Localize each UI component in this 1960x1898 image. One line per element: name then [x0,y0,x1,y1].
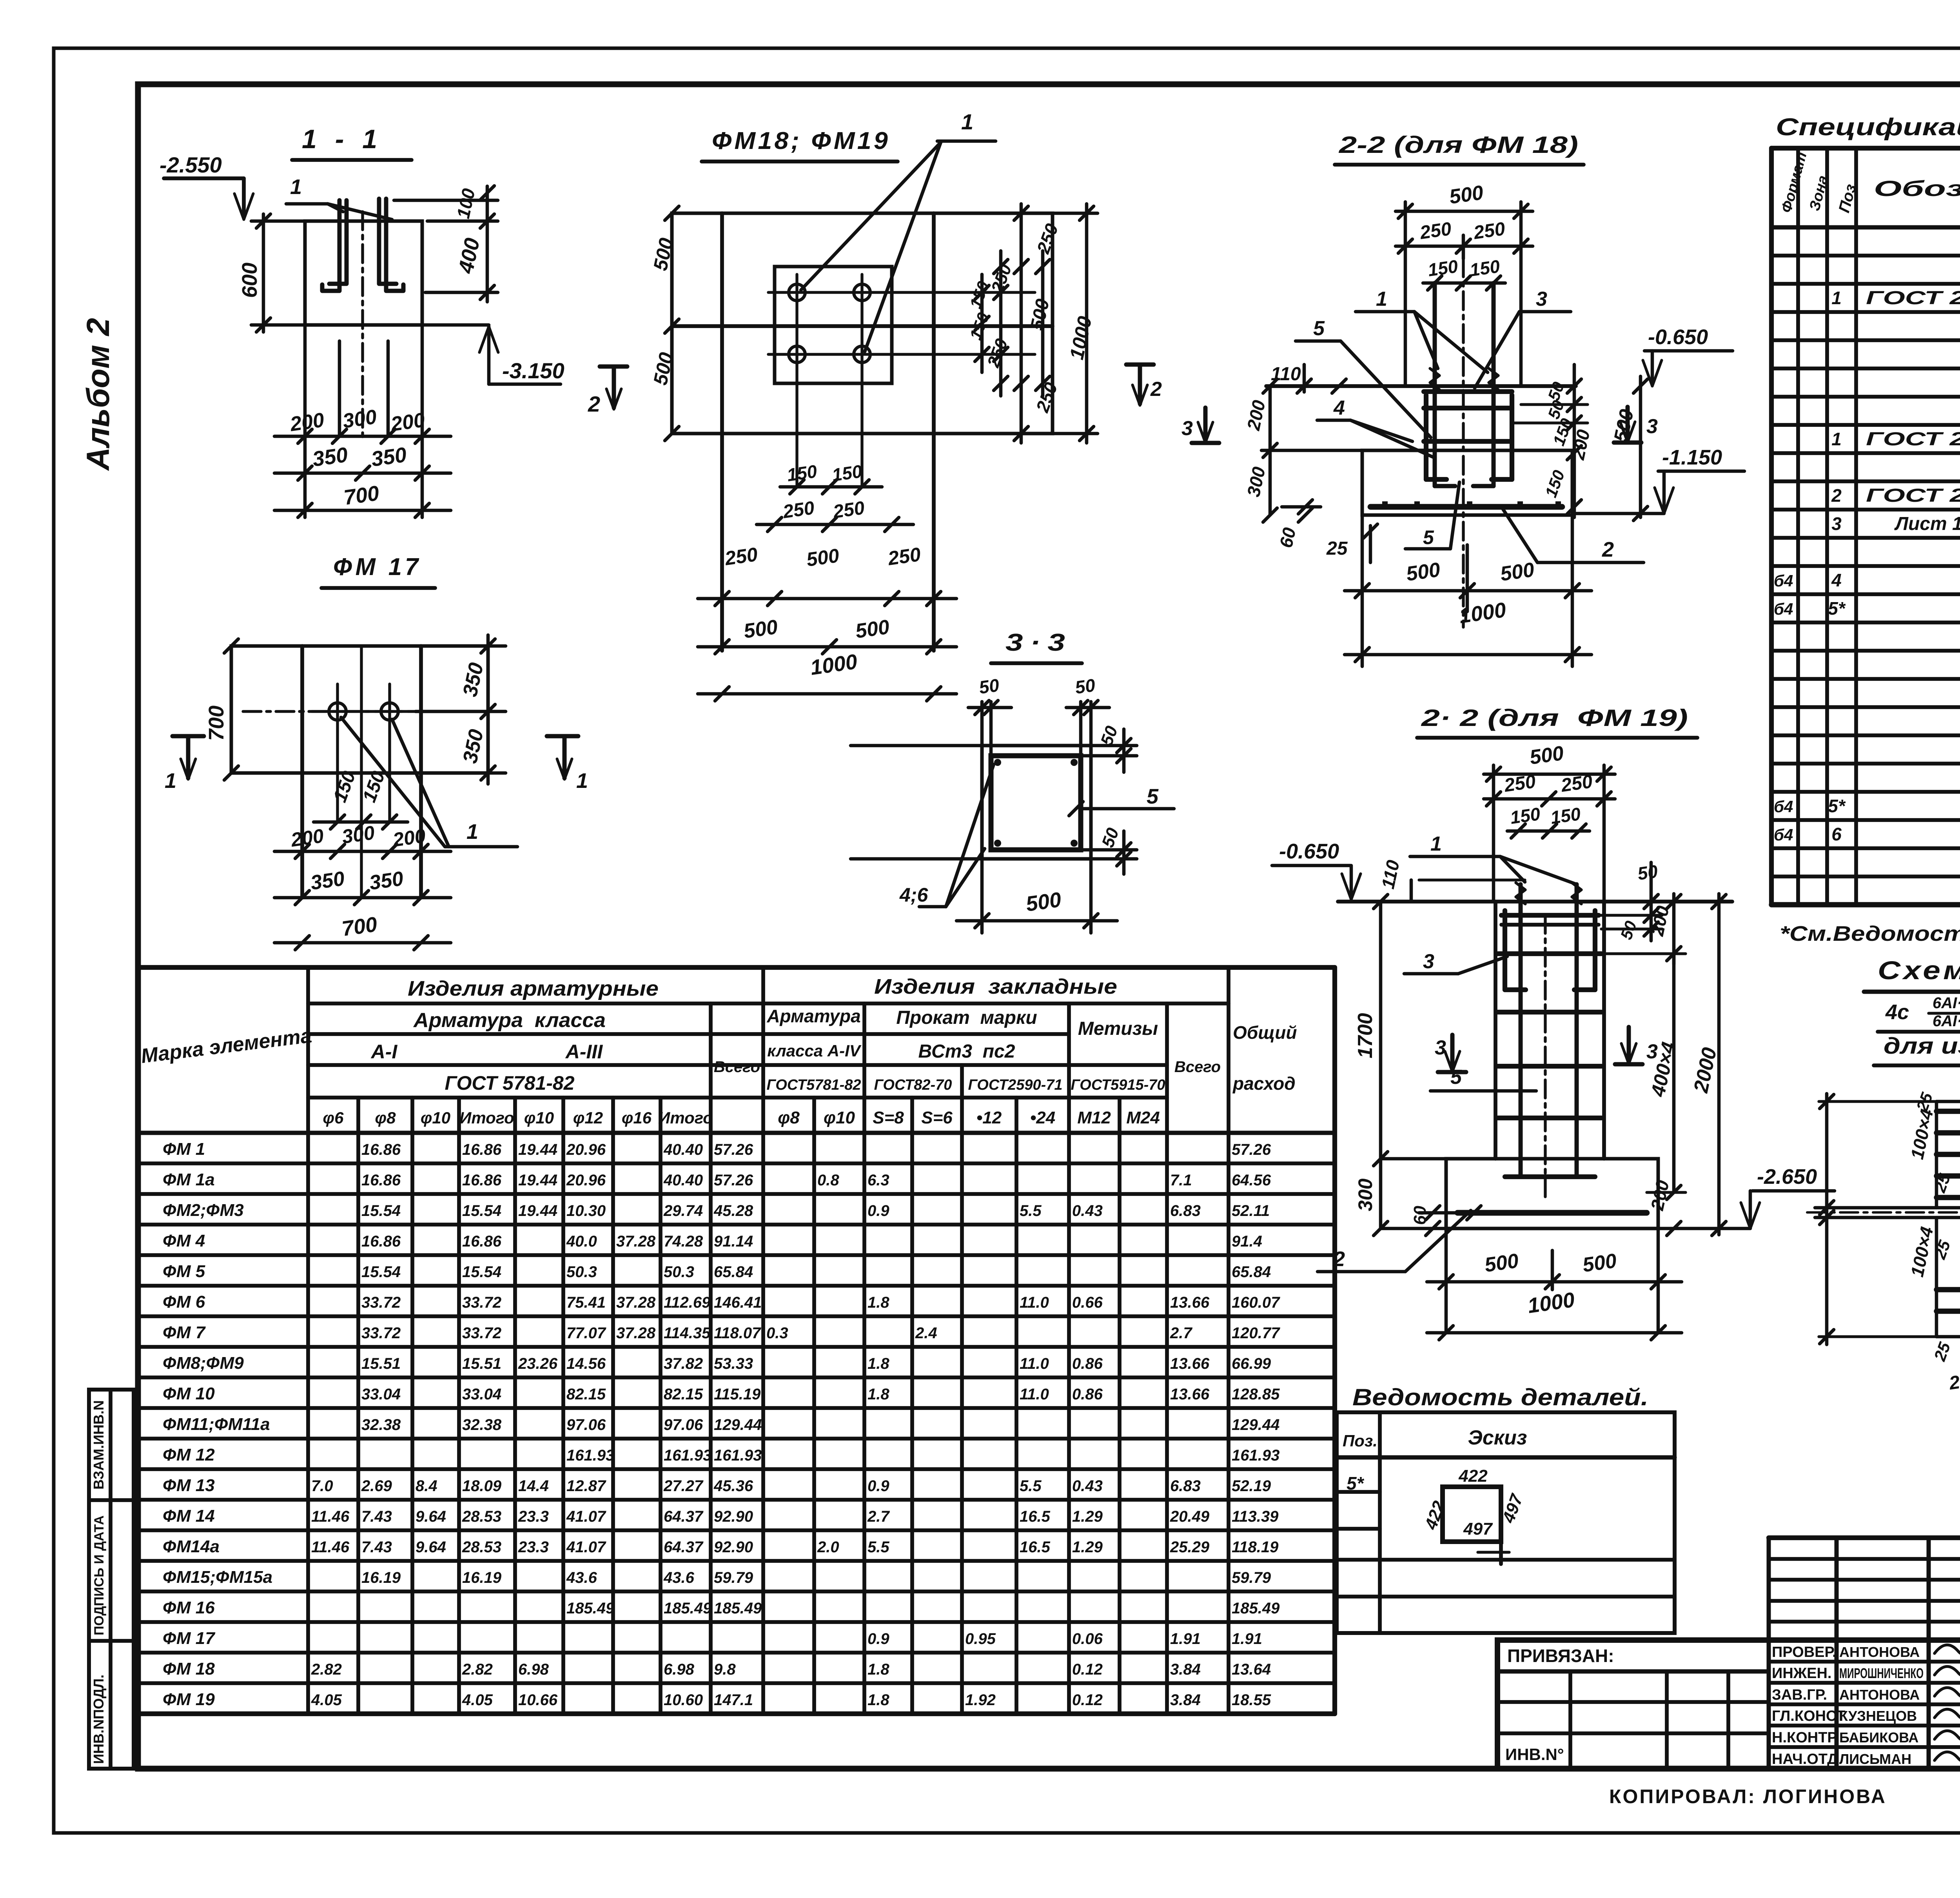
svg-text:-1.150: -1.150 [1662,446,1722,469]
FM17 dim chain 200 300 200 [274,850,451,853]
svg-text:-3.150: -3.150 [502,358,564,383]
svg-text:1700: 1700 [1354,1013,1377,1058]
svg-text:500: 500 [805,544,841,571]
svg-text:23.26: 23.26 [518,1355,558,1372]
svg-text:S=6: S=6 [921,1108,953,1127]
svg-text:33.04: 33.04 [462,1386,501,1403]
svg-text:ПРОВЕР.: ПРОВЕР. [1772,1644,1837,1660]
svg-text:ФМ 5: ФМ 5 [163,1262,205,1281]
svg-text:М12: М12 [1077,1108,1111,1127]
extension lines below [303,325,307,517]
svg-text:16.5: 16.5 [1020,1508,1051,1525]
svg-text:500: 500 [1024,888,1063,916]
svg-text:0.12: 0.12 [1072,1661,1103,1678]
level mark -3.150 [422,323,489,327]
svg-text:ВЗАМ.ИНВ.N: ВЗАМ.ИНВ.N [91,1400,107,1490]
svg-text:1: 1 [576,769,588,793]
ground line -0.650 level [1266,384,1576,388]
svg-text:3: 3 [1536,288,1547,310]
svg-text:1.91: 1.91 [1170,1630,1201,1648]
svg-text:250: 250 [1418,218,1453,243]
svg-text:для изготовления сетки с1.: для изготовления сетки с1. [1884,1033,1960,1059]
svg-text:45.36: 45.36 [713,1477,753,1495]
svg-text:3: 3 [1423,950,1434,973]
svg-text:Спецификация монолитной конст: Спецификация монолитной конструкции. [1776,114,1960,141]
svg-text:ГОСТ 24379.1-80: ГОСТ 24379.1-80 [1866,429,1960,450]
svg-text:185.49: 185.49 [664,1600,712,1617]
svg-text:2.82: 2.82 [462,1661,493,1678]
FM17 bolt 1 [329,703,346,720]
svg-text:А-I: А-I [370,1041,398,1063]
mesh cut horizontal band [1815,1206,1960,1210]
FM19 ground line [1338,900,1732,904]
svg-text:18.09: 18.09 [462,1477,502,1495]
svg-text:50.3: 50.3 [664,1263,694,1281]
3-3 corner leader 4;6 [946,764,994,907]
svg-text:КУЗНЕЦОВ: КУЗНЕЦОВ [1839,1708,1917,1724]
svg-text:0.95: 0.95 [965,1630,996,1648]
svg-text:ГОСТ 5781-82: ГОСТ 5781-82 [445,1072,574,1094]
svg-text:2: 2 [1150,378,1162,401]
svg-text:19.44: 19.44 [518,1172,557,1189]
svg-text:500: 500 [1499,558,1536,586]
svg-text:ПРИВЯЗАН:: ПРИВЯЗАН: [1507,1646,1614,1666]
svg-text:14.56: 14.56 [566,1355,606,1372]
svg-text:16.86: 16.86 [361,1172,401,1189]
svg-text:4с: 4с [1885,1000,1909,1024]
svg-text:φ10: φ10 [824,1108,855,1127]
anchor bolt 1 [322,200,339,291]
svg-text:60: 60 [1410,1206,1430,1225]
svg-text:16.5: 16.5 [1020,1539,1051,1556]
svg-text:250: 250 [1503,771,1537,796]
svg-text:ФМ 4: ФМ 4 [163,1231,205,1250]
svg-text:3: 3 [1435,1036,1446,1059]
svg-text:497: 497 [1463,1519,1493,1539]
FM17 plate band [231,646,488,773]
svg-text:43.6: 43.6 [566,1569,597,1586]
section mark 2 top [1126,363,1154,367]
FM17 mid vertical [360,646,363,898]
dims 100 400 right [486,186,489,302]
svg-text:2.0: 2.0 [817,1539,839,1556]
svg-text:50: 50 [978,675,1000,698]
svg-text:Изделия закладные: Изделия закладные [874,975,1117,998]
svg-text:2.7: 2.7 [867,1508,890,1525]
svg-text:2-2 (для ФМ 18): 2-2 (для ФМ 18) [1339,132,1578,158]
svg-text:52.11: 52.11 [1232,1202,1270,1219]
svg-text:129.44: 129.44 [1232,1416,1279,1433]
svg-text:40.40: 40.40 [663,1141,703,1158]
svg-text:5*: 5* [1347,1473,1365,1493]
svg-text:ФМ 14: ФМ 14 [163,1506,215,1526]
svg-text:7.43: 7.43 [361,1539,392,1556]
svg-text:б4: б4 [1774,826,1793,844]
svg-text:150: 150 [1509,804,1542,828]
left dims 200 300 [1269,386,1272,515]
svg-text:9.64: 9.64 [416,1508,446,1525]
bottom dim 1000 [698,692,956,696]
svg-text:ЗАВ.ГР.: ЗАВ.ГР. [1772,1687,1827,1703]
svg-text:15.51: 15.51 [361,1355,401,1372]
svg-text:16.86: 16.86 [462,1233,502,1250]
svg-text:40.0: 40.0 [566,1233,597,1250]
svg-text:500: 500 [1528,742,1565,769]
bottom dim 150 150 [780,485,882,489]
top dim 150 150 [1423,281,1505,285]
svg-text:18.55: 18.55 [1232,1691,1271,1709]
svg-text:15.54: 15.54 [361,1263,401,1281]
svg-text:0.43: 0.43 [1072,1477,1103,1495]
3-3 dim 500 bottom [980,859,984,933]
svg-text:41.07: 41.07 [566,1539,606,1556]
svg-text:7.1: 7.1 [1170,1172,1192,1189]
svg-text:74.28: 74.28 [664,1233,703,1250]
svg-text:11.0: 11.0 [1020,1355,1049,1372]
svg-text:113.39: 113.39 [1232,1508,1279,1525]
quadrant Q3 grid [1935,1218,1938,1337]
svg-text:52.19: 52.19 [1232,1477,1271,1495]
svg-text:-2.550: -2.550 [160,152,222,177]
svg-text:ИНВ.NПОДЛ.: ИНВ.NПОДЛ. [91,1675,107,1764]
footing mesh C1 [1370,504,1562,510]
svg-text:1.8: 1.8 [867,1661,889,1678]
svg-text:185.49: 185.49 [714,1600,762,1617]
svg-text:118.07: 118.07 [714,1325,761,1342]
svg-text:9.64: 9.64 [416,1539,446,1556]
svg-text:КОПИРОВАЛ: ЛОГИНОВА: КОПИРОВАЛ: ЛОГИНОВА [1609,1785,1887,1807]
svg-text:161.93: 161.93 [566,1447,614,1464]
svg-text:φ8: φ8 [375,1109,396,1127]
svg-text:φ16: φ16 [622,1109,652,1127]
svg-text:97.06: 97.06 [566,1416,606,1433]
svg-text:15.51: 15.51 [462,1355,501,1372]
svg-text:11.0: 11.0 [1020,1294,1049,1311]
svg-text:422: 422 [1458,1466,1488,1486]
svg-text:16.86: 16.86 [462,1141,502,1158]
svg-text:НАЧ.ОТД: НАЧ.ОТД [1772,1751,1838,1767]
svg-text:15.54: 15.54 [361,1202,401,1219]
svg-text:25.29: 25.29 [1170,1539,1210,1556]
svg-text:Итого: Итого [658,1109,713,1127]
right dim 500 [1639,376,1642,517]
svg-text:ЛИСЬМАН: ЛИСЬМАН [1839,1751,1911,1767]
3-3 dim 50 right-bottom [1081,848,1137,852]
svg-text:20.49: 20.49 [1170,1508,1210,1525]
svg-text:500: 500 [1581,1249,1618,1277]
svg-text:1.8: 1.8 [867,1691,889,1709]
svg-text:ФМ 19: ФМ 19 [163,1690,215,1709]
svg-text:200: 200 [391,825,427,851]
right dim 1000 [1085,204,1089,443]
svg-text:Н.КОНТР.: Н.КОНТР. [1772,1729,1839,1746]
svg-text:ИНВ.N°: ИНВ.N° [1505,1745,1564,1764]
svg-text:5: 5 [1313,317,1325,340]
FM19 bolts [1519,884,1523,1177]
svg-text:0.43: 0.43 [1072,1202,1103,1219]
svg-text:160.07: 160.07 [1232,1294,1280,1311]
bolt axes below [338,341,341,436]
svg-text:28.53: 28.53 [462,1508,501,1525]
svg-text:0.8: 0.8 [817,1172,839,1189]
specification table grid [1771,146,1960,151]
svg-text:5*: 5* [1828,796,1846,816]
svg-text:ФМ15;ФМ15а: ФМ15;ФМ15а [163,1568,272,1587]
svg-text:Арматура класса: Арматура класса [413,1009,606,1032]
right dims 250 250 [999,251,1003,396]
svg-text:б4: б4 [1774,600,1793,618]
svg-text:161.93: 161.93 [714,1447,762,1464]
svg-text:150: 150 [831,461,864,485]
svg-text:37.82: 37.82 [664,1355,703,1372]
FM17 dim chain 350 350 [274,896,451,900]
top dim 250 250 [1396,245,1533,248]
svg-text:ГОСТ2590-71: ГОСТ2590-71 [968,1077,1062,1093]
extension verticals [1404,202,1407,386]
svg-text:АНТОНОВА: АНТОНОВА [1839,1644,1920,1660]
svg-text:ГОСТ5781-82: ГОСТ5781-82 [766,1077,861,1093]
svg-text:φ6: φ6 [323,1109,344,1127]
svg-text:23.3: 23.3 [518,1508,549,1525]
svg-text:1.29: 1.29 [1072,1508,1103,1525]
svg-text:59.79: 59.79 [714,1569,753,1586]
svg-text:ВСт3 пс2: ВСт3 пс2 [918,1041,1015,1062]
svg-text:300: 300 [341,822,376,848]
svg-text:Альбом 2: Альбом 2 [80,318,116,471]
right dims 50 50 150 200 150 [1573,365,1576,517]
3-3 dim 50 top-right [1079,702,1083,756]
svg-text:11.0: 11.0 [1020,1386,1049,1403]
svg-text:МИРОШНИЧЕНКО: МИРОШНИЧЕНКО [1839,1665,1924,1681]
svg-text:0.06: 0.06 [1072,1630,1103,1648]
svg-text:2· 2 (для ФМ 19): 2· 2 (для ФМ 19) [1421,705,1688,731]
svg-text:33.72: 33.72 [462,1325,501,1342]
svg-text:ИНЖЕН.: ИНЖЕН. [1772,1665,1831,1682]
big consumption table [138,965,1335,970]
svg-text:3·3: 3·3 [1005,629,1072,656]
svg-text:S=8: S=8 [873,1108,904,1127]
svg-text:37.28: 37.28 [616,1233,656,1250]
FM19 top dim 500 [1484,773,1615,776]
svg-text:33.72: 33.72 [462,1294,501,1311]
svg-text:250: 250 [886,543,922,570]
svg-text:13.66: 13.66 [1170,1294,1210,1311]
svg-text:200: 200 [289,825,325,851]
svg-text:16.86: 16.86 [462,1172,502,1189]
svg-text:66.99: 66.99 [1232,1355,1271,1372]
FM19 dim 150 150 [1507,829,1590,833]
svg-text:2.82: 2.82 [311,1661,342,1678]
svg-text:350: 350 [370,443,408,471]
svg-text:150: 150 [1549,804,1582,828]
FM19 footing mesh [1457,1210,1647,1216]
svg-text:5.5: 5.5 [867,1539,889,1556]
svg-text:5: 5 [1450,1066,1462,1089]
FM17 section mark 1 right [547,734,578,739]
svg-text:150: 150 [1426,256,1459,280]
svg-text:64.37: 64.37 [664,1508,704,1525]
svg-text:0.66: 0.66 [1072,1294,1103,1311]
bottom dim 250 500 250 [698,597,956,601]
svg-text:Эскиз: Эскиз [1468,1426,1527,1449]
FM19 right dim 2000 [1717,894,1721,1235]
svg-text:25: 25 [1326,538,1348,559]
svg-text:200: 200 [289,408,326,436]
svg-text:6АI·100: 6АI·100 [1933,1013,1960,1030]
FM17 centerline dash [243,710,482,713]
column centerline [361,212,364,439]
svg-text:300: 300 [1354,1178,1376,1211]
svg-text:250: 250 [1472,218,1506,243]
quadrant Q1 grid [1935,1101,1938,1208]
svg-text:91.4: 91.4 [1232,1233,1262,1250]
FM17 dim 700 left [224,639,238,653]
svg-text:2.7: 2.7 [1170,1325,1192,1342]
section mark 2 [600,365,627,369]
svg-text:ГОСТ 23279-85: ГОСТ 23279-85 [1866,485,1960,506]
svg-text:ГЛ.КОНСТ: ГЛ.КОНСТ [1772,1708,1846,1724]
svg-text:77.07: 77.07 [566,1325,606,1342]
anchor bolts FM18 [1433,283,1437,486]
svg-text:ФМ 12: ФМ 12 [163,1445,215,1464]
svg-text:Обозначение: Обозначение [1874,176,1960,201]
svg-text:15.54: 15.54 [462,1263,501,1281]
svg-text:82.15: 82.15 [566,1386,606,1403]
mesh left dims [1819,1100,1936,1103]
svg-text:114.35: 114.35 [664,1325,711,1342]
svg-text:Поз.: Поз. [1343,1432,1377,1450]
svg-text:185.49: 185.49 [566,1600,615,1617]
title block [1497,1640,1960,1769]
3-3 outer square [982,746,1091,859]
svg-text:1: 1 [1376,288,1387,310]
plate mid line [672,324,1053,328]
svg-text:Метизы: Метизы [1078,1018,1158,1039]
svg-text:16.19: 16.19 [462,1569,502,1586]
svg-text:57.26: 57.26 [714,1172,753,1189]
svg-text:φ12: φ12 [573,1109,603,1127]
svg-text:53.33: 53.33 [714,1355,753,1372]
svg-text:700: 700 [340,913,379,941]
svg-text:ФМ8;ФМ9: ФМ8;ФМ9 [163,1354,244,1373]
svg-text:ФМ 16: ФМ 16 [163,1598,215,1617]
svg-text:250: 250 [831,497,866,523]
left stamp strip [89,1390,134,1769]
svg-text:33.72: 33.72 [361,1325,401,1342]
svg-text:50: 50 [1636,861,1659,884]
svg-text:5: 5 [1147,785,1159,808]
svg-text:500: 500 [1483,1249,1520,1277]
steel plate with bolts [775,267,892,383]
left dim 60 [1282,505,1321,509]
svg-text:4: 4 [1831,570,1842,590]
FM19 bottom dims [1445,1228,1448,1333]
svg-text:6.83: 6.83 [1170,1202,1201,1219]
svg-text:ФМ 18: ФМ 18 [163,1659,215,1678]
svg-text:•12: •12 [976,1108,1002,1127]
dim chain 350 350 [274,472,451,475]
svg-text:1.92: 1.92 [965,1691,996,1709]
svg-text:500: 500 [742,615,779,643]
svg-text:•24: •24 [1030,1108,1055,1127]
svg-text:4: 4 [1333,397,1345,419]
FM19 column faces [1494,902,1497,1159]
svg-text:9.8: 9.8 [714,1661,736,1678]
svg-text:37.28: 37.28 [616,1294,656,1311]
svg-text:ФМ 6: ФМ 6 [163,1292,205,1312]
svg-text:20.96: 20.96 [566,1172,606,1189]
svg-text:28.53: 28.53 [462,1539,501,1556]
svg-text:1: 1 [1831,429,1842,449]
svg-text:ФМ 1: ФМ 1 [163,1140,205,1159]
svg-text:0.9: 0.9 [867,1477,889,1495]
svg-text:ФМ11;ФМ11а: ФМ11;ФМ11а [163,1415,270,1434]
svg-text:1.8: 1.8 [867,1355,889,1372]
anchor bolt 2 [386,199,403,291]
svg-text:147.1: 147.1 [714,1691,753,1709]
svg-text:ГОСТ5915-70: ГОСТ5915-70 [1071,1077,1165,1093]
svg-text:8.4: 8.4 [416,1477,437,1495]
footing FM18 [1362,450,1572,515]
svg-text:150: 150 [786,461,818,485]
svg-text:Всего: Всего [1174,1058,1221,1076]
svg-text:250: 250 [723,543,759,570]
3-3 stirrup [991,756,1081,850]
FM19 stirrup rungs [1498,951,1601,956]
svg-text:ГОСТ 24379.1-80: ГОСТ 24379.1-80 [1866,288,1960,308]
svg-text:10.30: 10.30 [566,1202,606,1219]
svg-text:10.60: 10.60 [664,1691,703,1709]
svg-text:7.43: 7.43 [361,1508,392,1525]
svg-text:146.41: 146.41 [714,1294,762,1311]
svg-text:Прокат марки: Прокат марки [896,1007,1037,1028]
svg-text:13.64: 13.64 [1232,1661,1271,1678]
svg-text:1 - 1: 1 - 1 [302,124,383,154]
FM19 right dim 200 bottom [1667,1221,1681,1236]
svg-text:1.8: 1.8 [867,1294,889,1311]
svg-text:118.19: 118.19 [1232,1539,1279,1556]
svg-text:10.66: 10.66 [518,1691,558,1709]
FM19 footing [1446,1159,1658,1228]
3-3 dim 50 right-top [1091,744,1137,748]
svg-text:5*: 5* [1828,598,1846,619]
svg-text:112.69: 112.69 [664,1294,711,1311]
svg-text:350: 350 [368,867,405,895]
svg-text:4;6: 4;6 [899,884,928,906]
svg-text:82.15: 82.15 [664,1386,703,1403]
svg-text:500: 500 [854,615,891,643]
svg-text:1: 1 [165,769,176,793]
svg-text:250: 250 [1559,771,1594,796]
svg-text:65.84: 65.84 [1232,1263,1271,1281]
svg-text:2.69: 2.69 [361,1477,392,1495]
right dim 500 [1041,251,1045,396]
top dim 500 [1396,210,1533,213]
svg-text:13.66: 13.66 [1170,1386,1210,1403]
svg-text:11.46: 11.46 [311,1508,350,1525]
FM17 label 1 leader [341,717,445,847]
svg-text:3.84: 3.84 [1170,1691,1201,1709]
svg-text:161.93: 161.93 [664,1447,711,1464]
svg-text:ФМ 10: ФМ 10 [163,1384,215,1403]
svg-text:33.04: 33.04 [361,1386,401,1403]
3-3 dim 50 top-left [980,702,984,746]
svg-text:2: 2 [1831,485,1842,506]
svg-text:20.96: 20.96 [566,1141,606,1158]
svg-text:2: 2 [588,392,600,416]
svg-text:б4: б4 [1774,797,1793,816]
right dims 150 150 [980,274,984,372]
